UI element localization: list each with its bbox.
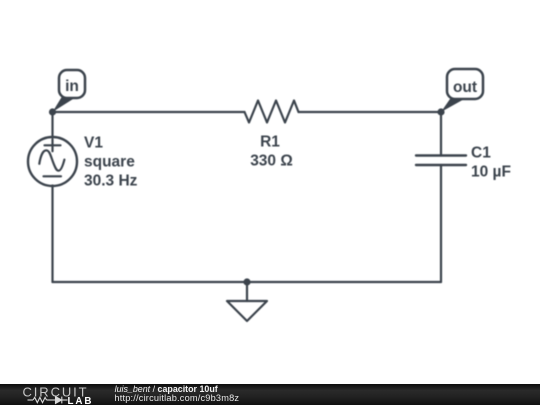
wire C1 down to bottom rail bbox=[440, 165, 442, 282]
svg-text:10 µF: 10 µF bbox=[471, 164, 511, 181]
svg-text:C1: C1 bbox=[471, 145, 491, 162]
svg-text:square: square bbox=[84, 154, 135, 171]
label C1 value bbox=[471, 145, 511, 181]
node in junction dot bbox=[49, 108, 56, 115]
node flag out bbox=[441, 69, 483, 112]
node out junction dot bbox=[437, 108, 444, 115]
wire node in down to V1 bbox=[51, 112, 53, 138]
svg-text:330 Ω: 330 Ω bbox=[250, 153, 293, 170]
ground bbox=[227, 301, 267, 321]
node flag in bbox=[53, 70, 86, 112]
wire node out down to C1 bbox=[440, 112, 442, 156]
svg-text:LAB: LAB bbox=[68, 396, 94, 405]
footer bar bbox=[0, 384, 540, 405]
ground junction dot bbox=[243, 278, 250, 285]
wire top-left from node in to resistor bbox=[53, 111, 245, 113]
CircuitLab logo bbox=[0, 384, 110, 405]
voltage source V1 bbox=[28, 137, 77, 186]
svg-text:V1: V1 bbox=[84, 135, 103, 152]
capacitor C1 bbox=[416, 156, 466, 166]
resistor R1 bbox=[245, 101, 299, 123]
wire V1 down to bottom rail bbox=[51, 186, 53, 283]
footer url text bbox=[114, 393, 239, 403]
wire bottom rail bbox=[53, 281, 442, 283]
svg-text:out: out bbox=[453, 79, 477, 96]
svg-text:R1: R1 bbox=[260, 134, 280, 151]
footer title text bbox=[115, 384, 218, 394]
wire resistor to node out bbox=[299, 111, 442, 113]
label V1 value bbox=[84, 135, 138, 190]
svg-text:in: in bbox=[65, 78, 79, 95]
label R1 value bbox=[250, 134, 293, 170]
svg-text:30.3 Hz: 30.3 Hz bbox=[84, 173, 138, 190]
ground stub wire bbox=[246, 282, 248, 301]
